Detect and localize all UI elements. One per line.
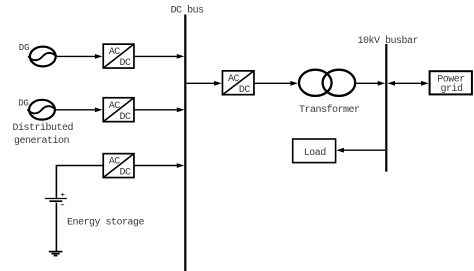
svg-text:AC: AC	[109, 47, 121, 58]
battery B1	[45, 193, 67, 205]
converter U4 AC/DC (inverter)	[222, 71, 254, 96]
wire 10kV busbar to load	[336, 148, 385, 153]
block load	[293, 139, 336, 163]
transformer T1	[299, 70, 355, 96]
label Energy storage	[67, 218, 145, 229]
generator DG1	[19, 43, 57, 67]
wire converter U3 to DC bus	[135, 163, 185, 168]
svg-text:DC: DC	[120, 168, 132, 179]
svg-text:Transformer: Transformer	[299, 104, 360, 116]
wire DG2 to converter U2	[56, 107, 103, 112]
wire transformer T1 to 10kV busbar	[356, 81, 385, 86]
wire DC bus (vertical bus line)	[184, 15, 186, 271]
wire DG1 to converter U1	[57, 54, 103, 59]
wire converter U2 to DC bus	[135, 107, 185, 112]
svg-text:Distributed: Distributed	[13, 122, 74, 134]
svg-text:DG: DG	[18, 99, 28, 109]
svg-text:grid: grid	[441, 83, 464, 95]
converter U3 AC/DC	[103, 153, 134, 178]
svg-text:AC: AC	[228, 74, 240, 85]
wire battery to converter U3 (corner)	[56, 166, 102, 198]
ground	[49, 252, 63, 256]
generator DG2	[18, 99, 55, 120]
block power grid	[430, 71, 472, 95]
svg-text:DC bus: DC bus	[171, 4, 205, 16]
wire battery to ground	[55, 203, 57, 251]
wire converter U1 to DC bus	[135, 54, 185, 59]
label Transformer	[299, 104, 360, 116]
svg-text:Load: Load	[304, 147, 327, 159]
wire inverter U4 to transformer T1	[255, 81, 298, 86]
svg-text:generation: generation	[14, 135, 70, 147]
wire 10kV busbar to power grid (bidirectional)	[388, 81, 429, 86]
svg-text:DG: DG	[19, 43, 29, 53]
node 10kV busbar label	[358, 35, 419, 47]
converter U2 AC/DC	[103, 98, 134, 123]
node DC bus label	[171, 4, 205, 16]
svg-text:AC: AC	[109, 157, 121, 168]
svg-text:DC: DC	[120, 112, 132, 123]
wire DC bus to inverter U4	[186, 81, 221, 86]
svg-text:DC: DC	[239, 85, 251, 96]
converter U1 AC/DC	[103, 44, 134, 69]
svg-text:AC: AC	[109, 101, 121, 112]
svg-text:10kV busbar: 10kV busbar	[358, 35, 419, 47]
label Distributed generation	[13, 122, 74, 147]
svg-text:Energy storage: Energy storage	[67, 218, 145, 229]
svg-text:DC: DC	[120, 58, 132, 69]
wire 10kV busbar (vertical bus line)	[385, 44, 387, 172]
